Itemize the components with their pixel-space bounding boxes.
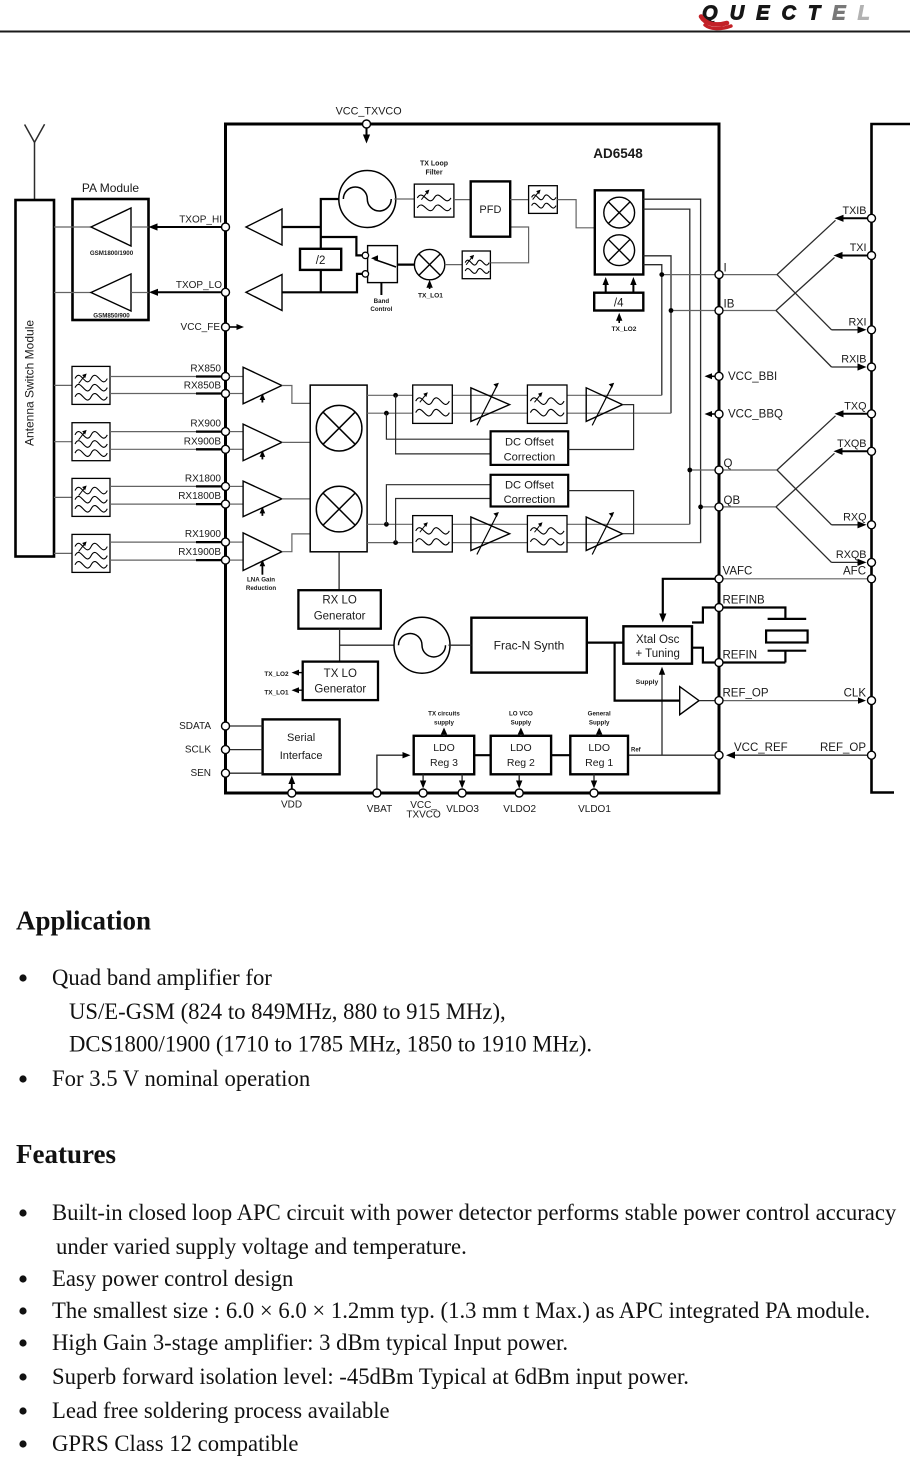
RX LO Generator label	[314, 595, 366, 623]
svg-text:High Gain 3-stage amplifier: 3: High Gain 3-stage amplifier: 3 dBm typic…	[52, 1330, 568, 1355]
wire TX loop filter to PFD	[454, 199, 471, 201]
TX LO Generator box	[303, 662, 378, 701]
REFIN pin	[715, 659, 723, 667]
wire VCO2 to synth	[449, 644, 472, 646]
RX1900 pin	[222, 538, 230, 546]
VCC_REF pin	[715, 751, 723, 759]
TX_LO1 output arrow	[292, 687, 303, 693]
svg-text:VDD: VDD	[281, 800, 302, 811]
svg-text:VBAT: VBAT	[367, 804, 392, 815]
down wire to VLDO3 pin	[459, 774, 465, 788]
TX buffer high-band	[246, 209, 282, 245]
PA Module box	[73, 199, 149, 320]
svg-text:Built-in closed loop APC circu: Built-in closed loop APC circuit with po…	[52, 1200, 897, 1225]
LNA 2 gain control tick	[260, 450, 266, 459]
Frac-N Synth box	[471, 618, 586, 673]
svg-text:VLDO1: VLDO1	[578, 804, 611, 815]
RXIB pin	[868, 363, 876, 371]
svg-text:Q: Q	[724, 458, 733, 470]
RX mixer Q	[316, 486, 362, 532]
wire to RXIB	[776, 311, 867, 371]
svg-text:RX850: RX850	[190, 364, 221, 375]
LNA 1	[243, 367, 282, 404]
SAW filter 1	[72, 366, 110, 404]
TX loop filter box	[414, 184, 454, 217]
svg-text:TXVCO: TXVCO	[406, 810, 441, 821]
wire RX LO to TX LO	[339, 629, 341, 662]
svg-text:For 3.5 V nominal operation: For 3.5 V nominal operation	[52, 1066, 310, 1091]
wire LNA2 to RX mixer	[282, 441, 310, 443]
svg-text:REF_OP: REF_OP	[820, 742, 866, 754]
svg-text:SCLK: SCLK	[185, 745, 211, 756]
VLDO3 pin	[458, 789, 466, 797]
svg-text:LDO: LDO	[588, 742, 610, 754]
svg-text:QB: QB	[724, 495, 741, 507]
svg-text:L: L	[858, 3, 870, 25]
svg-text:Reg 2: Reg 2	[507, 757, 535, 769]
wire modulator to I vertical	[643, 265, 662, 396]
LNA 3 gain control tick	[260, 507, 266, 516]
svg-text:Control: Control	[370, 306, 392, 313]
RX1900 pin stub	[196, 542, 226, 560]
DC offset feedback wires I path	[386, 395, 490, 454]
I path wire bottom	[367, 412, 671, 414]
wire to RXI	[777, 275, 867, 334]
svg-text:VCC_REF: VCC_REF	[734, 742, 788, 754]
RX900 pin stub	[196, 432, 226, 450]
wire RX900	[110, 431, 226, 433]
TXOP_LO pin	[222, 288, 230, 296]
SAW filter 3	[72, 478, 110, 516]
RX mixer I	[316, 405, 362, 451]
svg-text:Superb forward isolation level: Superb forward isolation level: -45dBm T…	[52, 1364, 689, 1389]
svg-text:TXQB: TXQB	[837, 438, 866, 450]
I path filter 2	[527, 385, 567, 423]
svg-text:Correction: Correction	[504, 494, 556, 506]
wire modulator to IB vertical	[643, 256, 671, 413]
svg-text:CLK: CLK	[844, 688, 867, 700]
wire RX850B	[110, 393, 226, 395]
svg-text:Frac-N Synth: Frac-N Synth	[494, 639, 565, 653]
header rule	[0, 31, 910, 33]
wire to TXIB	[777, 215, 872, 275]
svg-text:SEN: SEN	[190, 768, 211, 779]
svg-text:Generator: Generator	[314, 684, 366, 696]
svg-text:C: C	[782, 3, 797, 25]
Quectel logo	[701, 3, 870, 29]
svg-text:TXOP_LO: TXOP_LO	[176, 280, 222, 291]
LDO Reg 3 box	[414, 736, 475, 775]
svg-text:RX1800B: RX1800B	[178, 491, 221, 502]
svg-text:GSM1800/1900: GSM1800/1900	[90, 250, 134, 257]
wire modulator to Q vertical	[643, 209, 690, 524]
svg-text:Quad band amplifier for: Quad band amplifier for	[52, 965, 272, 990]
wires pins to LNA 1	[230, 377, 244, 394]
svg-text:GSM850/900: GSM850/900	[93, 313, 130, 320]
arrows /4 to modulator	[603, 277, 637, 293]
svg-text:REFINB: REFINB	[723, 595, 766, 607]
junction dots mixer outputs	[384, 393, 398, 545]
wire filter to modulator	[557, 200, 595, 228]
svg-text:LDO: LDO	[510, 742, 532, 754]
Band Control label	[370, 298, 392, 313]
DC Offset Correction box Q	[491, 475, 569, 507]
band control stub	[380, 283, 382, 296]
svg-text:RX900B: RX900B	[184, 436, 222, 447]
REFINB wire to crystal	[719, 608, 785, 619]
Serial Interface box	[263, 719, 340, 774]
wires pins to LNA 2	[230, 432, 244, 450]
wire band control to TX_LO1 mixer	[397, 264, 414, 266]
svg-text:/2: /2	[316, 255, 326, 267]
svg-text:E: E	[756, 3, 770, 25]
I wire	[662, 274, 719, 276]
svg-text:Features: Features	[16, 1139, 116, 1169]
svg-text:VCC_FE: VCC_FE	[181, 322, 221, 333]
svg-text:U: U	[730, 3, 745, 25]
svg-text:Application: Application	[16, 906, 151, 936]
TX VCO	[339, 171, 396, 228]
svg-text:RX LO: RX LO	[322, 595, 357, 607]
wire modulator to QB vertical	[643, 199, 700, 543]
svg-text:The smallest size : 6.0 × 6.0: The smallest size : 6.0 × 6.0 × 1.2mm ty…	[52, 1298, 870, 1323]
svg-text:Filter: Filter	[425, 170, 442, 177]
SDATA pin	[222, 722, 230, 730]
LNA 3	[243, 481, 282, 516]
I wire to junction	[719, 274, 777, 276]
TXOP_HI wire with arrow	[149, 223, 226, 230]
RX900 pin	[222, 428, 230, 436]
TXOP_HI pin	[222, 223, 230, 231]
svg-text:DCS1800/1900 (1710 to 1785 MHz: DCS1800/1900 (1710 to 1785 MHz, 1850 to …	[69, 1032, 592, 1057]
wire ASM to PA amp1	[54, 226, 91, 228]
svg-text:VLDO3: VLDO3	[446, 804, 479, 815]
svg-text:Supply: Supply	[589, 720, 610, 727]
svg-text:Supply: Supply	[511, 720, 532, 727]
svg-text:LDO: LDO	[433, 742, 455, 754]
svg-text:RX1900B: RX1900B	[178, 547, 221, 558]
REF_OP pin	[715, 697, 723, 705]
antenna	[25, 124, 45, 200]
DC offset sense wire I	[568, 405, 633, 450]
supply arrow LDO Reg 3	[441, 728, 447, 736]
LNA 4	[243, 533, 282, 571]
SDATA wire	[230, 725, 263, 727]
TX_LO2 input arrow	[616, 313, 622, 323]
feature bullet	[19, 1209, 26, 1216]
TXIB pin	[868, 214, 876, 222]
svg-text:RXIB: RXIB	[841, 354, 866, 366]
TX feedback filter	[462, 251, 490, 279]
junction dots baseband verticals	[659, 272, 703, 509]
VDD pin	[288, 789, 296, 797]
wire buffer2 input to band switch	[282, 274, 362, 292]
reference output buffer	[680, 687, 699, 715]
wire synth to xtal	[587, 641, 624, 643]
svg-text:supply: supply	[434, 720, 454, 727]
RX LO Generator box	[298, 590, 380, 629]
bullet nominal op	[19, 1075, 26, 1082]
RXQB pin	[868, 558, 876, 566]
Q path filter 2	[527, 516, 567, 552]
down wire to VLDO1 pin	[591, 774, 597, 788]
svg-text:VCC_BBI: VCC_BBI	[728, 371, 777, 383]
svg-text:E: E	[832, 3, 846, 25]
wire to TXQB	[776, 448, 872, 507]
TXQ pin	[868, 410, 876, 418]
svg-text:Interface: Interface	[280, 750, 323, 762]
VLDO2 pin	[515, 789, 523, 797]
I path VGA 2	[586, 383, 622, 426]
svg-text:VAFC: VAFC	[723, 566, 753, 578]
SAW filter 4	[72, 534, 110, 572]
svg-text:Antenna Switch Module: Antenna Switch Module	[23, 320, 37, 446]
DC offset feedback wires Q path	[386, 485, 490, 543]
I pin	[715, 271, 723, 279]
RX1800B pin	[222, 500, 230, 508]
LNA 1 gain control tick	[260, 394, 266, 403]
divider /4 box	[594, 293, 643, 311]
svg-text:Correction: Correction	[504, 452, 556, 464]
svg-text:/4: /4	[614, 298, 624, 310]
REFINB wire to xtal box	[692, 608, 719, 623]
IB wire	[671, 310, 719, 312]
CLK pin	[868, 697, 876, 705]
SCLK pin	[222, 746, 230, 754]
SCLK wire	[230, 749, 263, 751]
Q path VGA 2	[586, 512, 622, 555]
wire ASM to SAW filter 2	[54, 441, 72, 443]
Q path VGA 1	[471, 512, 510, 555]
Q path wire top	[367, 523, 690, 525]
RX1800 pin stub	[196, 486, 226, 504]
wire RX1800B	[110, 503, 226, 505]
svg-text:RXQB: RXQB	[836, 549, 867, 561]
svg-text:IB: IB	[724, 299, 735, 311]
wire VCO to divider chain	[321, 199, 341, 249]
svg-text:Easy power control design: Easy power control design	[52, 1266, 293, 1291]
feature bullet	[19, 1440, 26, 1447]
VCC_BBI arrow	[705, 373, 715, 379]
RX850 pin stub	[196, 377, 226, 394]
supply arrow LDO Reg 2	[518, 728, 524, 736]
wire RX1900	[110, 541, 226, 543]
wire RX1800	[110, 485, 226, 487]
TX_LO2 output arrow	[292, 670, 303, 676]
supply arrow LDO Reg 1	[596, 728, 602, 736]
band control switch box	[368, 246, 398, 283]
outer module right boundary	[872, 124, 910, 793]
REFIN wire to xtal box	[692, 648, 719, 663]
Q path filter 1	[413, 516, 453, 552]
divider /2 box	[300, 249, 341, 270]
TX LO Generator label	[314, 668, 366, 696]
SEN wire	[230, 772, 263, 774]
VAFC wire to Xtal osc	[659, 579, 719, 623]
svg-text:TX circuits: TX circuits	[428, 711, 460, 718]
SAW filter 2	[72, 423, 110, 461]
RF VCO	[394, 617, 450, 673]
Q path wire bottom	[367, 542, 700, 544]
svg-text:VCC_TXVCO: VCC_TXVCO	[336, 106, 402, 118]
LDO Reg 2 label	[507, 742, 535, 769]
svg-text:Supply: Supply	[636, 679, 659, 686]
VBAT pin	[373, 789, 381, 797]
svg-text:Ref: Ref	[631, 748, 642, 754]
band control switch arm	[371, 255, 396, 267]
svg-text:TX_LO1: TX_LO1	[418, 293, 443, 300]
TX_LO1 mixer	[414, 249, 444, 279]
TXQB pin	[868, 447, 876, 455]
IB wire to junction	[719, 310, 777, 312]
VBAT wire to LDO Reg 3	[377, 752, 411, 789]
wire LNA4 to RX mixer	[282, 534, 310, 552]
LDO Reg 2 box	[491, 736, 551, 775]
DC Offset Correction box I	[491, 431, 569, 465]
wire amp2 to PA edge	[131, 292, 149, 294]
DC Offset Correction I label	[504, 437, 556, 464]
svg-text:Generator: Generator	[314, 611, 366, 623]
TXOP_LO wire with arrow	[149, 289, 226, 296]
svg-text:TX_LO2: TX_LO2	[264, 671, 289, 678]
svg-text:TXQ: TXQ	[844, 400, 866, 412]
svg-text:DC Offset: DC Offset	[505, 480, 555, 492]
Xtal Osc label	[635, 634, 679, 660]
svg-text:TX_LO2: TX_LO2	[612, 326, 637, 333]
PA amplifier GSM850/900	[91, 274, 131, 311]
I path VGA 1	[471, 383, 510, 426]
wire LDO2 to LDO1	[551, 754, 570, 756]
RX900B pin	[222, 445, 230, 453]
svg-text:REFIN: REFIN	[723, 650, 758, 662]
svg-text:I: I	[724, 263, 727, 275]
LO VCO Supply label	[509, 711, 533, 727]
wire buffer to REF_OP pin	[699, 700, 719, 702]
wire LNA3 to RX mixer	[282, 498, 310, 500]
wire RX900B	[110, 448, 226, 450]
REFIN wire from crystal	[719, 661, 785, 663]
wire feedback filter to PFD	[490, 227, 528, 263]
VCC_FE pin	[222, 323, 230, 331]
wire VCO to TX loop filter	[394, 198, 414, 200]
svg-text:RX1800: RX1800	[185, 473, 222, 484]
TX buffer low-band	[246, 275, 282, 311]
wires pins to LNA 4	[230, 542, 244, 560]
svg-text:VLDO2: VLDO2	[503, 804, 536, 815]
AFC pin	[868, 575, 876, 583]
wire RX850	[110, 376, 226, 378]
wire LNA1 to RX mixer	[282, 386, 310, 404]
reference buffer tap wire	[615, 643, 680, 701]
wire to TXI	[776, 252, 872, 311]
QB wire	[701, 506, 719, 508]
svg-text:TX_LO1: TX_LO1	[264, 690, 289, 697]
svg-text:REF_OP: REF_OP	[723, 688, 769, 700]
down wire to VCC_TXVCO pin	[420, 774, 426, 788]
feature bullet	[19, 1407, 26, 1414]
svg-text:RX1900: RX1900	[185, 529, 222, 540]
LNA 2	[243, 424, 282, 461]
svg-text:RXI: RXI	[849, 316, 867, 328]
svg-text:Band: Band	[374, 298, 390, 305]
svg-text:Reduction: Reduction	[246, 585, 276, 592]
TX filter after PFD	[529, 186, 558, 214]
wire buffer1 input	[282, 226, 321, 228]
LDO Reg 3 label	[430, 742, 458, 769]
svg-text:TXOP_HI: TXOP_HI	[179, 215, 222, 226]
svg-text:GPRS Class 12 compatible: GPRS Class 12 compatible	[52, 1431, 298, 1456]
svg-text:AFC: AFC	[843, 566, 866, 578]
DC offset sense wire Q	[568, 491, 633, 534]
RXI pin	[868, 326, 876, 334]
svg-text:TXIB: TXIB	[843, 205, 867, 217]
supply arrow into xtal box	[659, 667, 665, 755]
down wire to VLDO2 pin	[516, 774, 522, 788]
svg-text:AD6548: AD6548	[593, 146, 643, 161]
svg-text:PA Module: PA Module	[82, 181, 139, 195]
TX modulator box	[595, 190, 644, 274]
svg-text:Reg 1: Reg 1	[585, 757, 613, 769]
RX quadrature mixer box	[310, 385, 367, 552]
svg-text:PFD: PFD	[479, 204, 501, 216]
LNA Gain Reduction label	[246, 577, 276, 593]
svg-text:Xtal Osc: Xtal Osc	[636, 634, 680, 646]
Q wire	[690, 469, 719, 471]
feature bullet	[19, 1275, 26, 1282]
I path wire top	[367, 394, 662, 396]
svg-text:US/E-GSM (824 to 849MHz, 880 t: US/E-GSM (824 to 849MHz, 880 to 915 MHz)…	[69, 999, 506, 1024]
svg-text:Serial: Serial	[287, 732, 315, 744]
REF_OP right pin	[868, 751, 876, 759]
wires pins to LNA 3	[230, 486, 244, 504]
svg-text:VCC_BBQ: VCC_BBQ	[728, 409, 783, 421]
wire ASM to PA amp2	[54, 292, 91, 294]
VCC_TXVCO pin	[419, 789, 427, 797]
Serial Interface label	[280, 732, 323, 762]
PFD box	[471, 181, 511, 236]
wire mixer to feedback filter	[445, 264, 462, 266]
wire RX1900B	[110, 559, 226, 561]
RX1800 pin	[222, 482, 230, 490]
wire to RXQ	[777, 470, 867, 528]
VLDO1 pin	[590, 789, 598, 797]
VCC_REF wire from REF_OP pin	[726, 752, 872, 759]
modulator mixer I	[604, 197, 635, 228]
wire ASM to SAW filter 4	[54, 552, 72, 554]
RX850 pin	[222, 373, 230, 381]
VCC_BBQ pin	[715, 410, 723, 418]
VCC_TXVCO supply arrow	[363, 128, 370, 144]
REF_OP to CLK wire	[719, 697, 866, 703]
svg-text:DC Offset: DC Offset	[505, 437, 555, 449]
Xtal Osc + Tuning box	[623, 626, 692, 663]
DC Offset Correction Q label	[504, 480, 556, 507]
VCC_TXVCO pin top	[363, 120, 371, 128]
svg-text:LO VCO: LO VCO	[509, 711, 533, 718]
LNA 4 gain control tick	[260, 560, 266, 575]
svg-text:Lead free soldering process av: Lead free soldering process available	[52, 1398, 390, 1423]
svg-text:under varied supply voltage a: under varied supply voltage and temperat…	[56, 1234, 467, 1259]
svg-text:RX900: RX900	[190, 419, 221, 430]
wire to RXQB	[776, 507, 867, 566]
I path filter 1	[413, 385, 453, 423]
TX circuits supply label	[428, 711, 460, 727]
feature bullet	[19, 1307, 26, 1314]
IB pin	[715, 307, 723, 315]
svg-text:TXI: TXI	[850, 242, 867, 254]
RX1900B pin	[222, 556, 230, 564]
Q wire to junction	[719, 469, 777, 471]
